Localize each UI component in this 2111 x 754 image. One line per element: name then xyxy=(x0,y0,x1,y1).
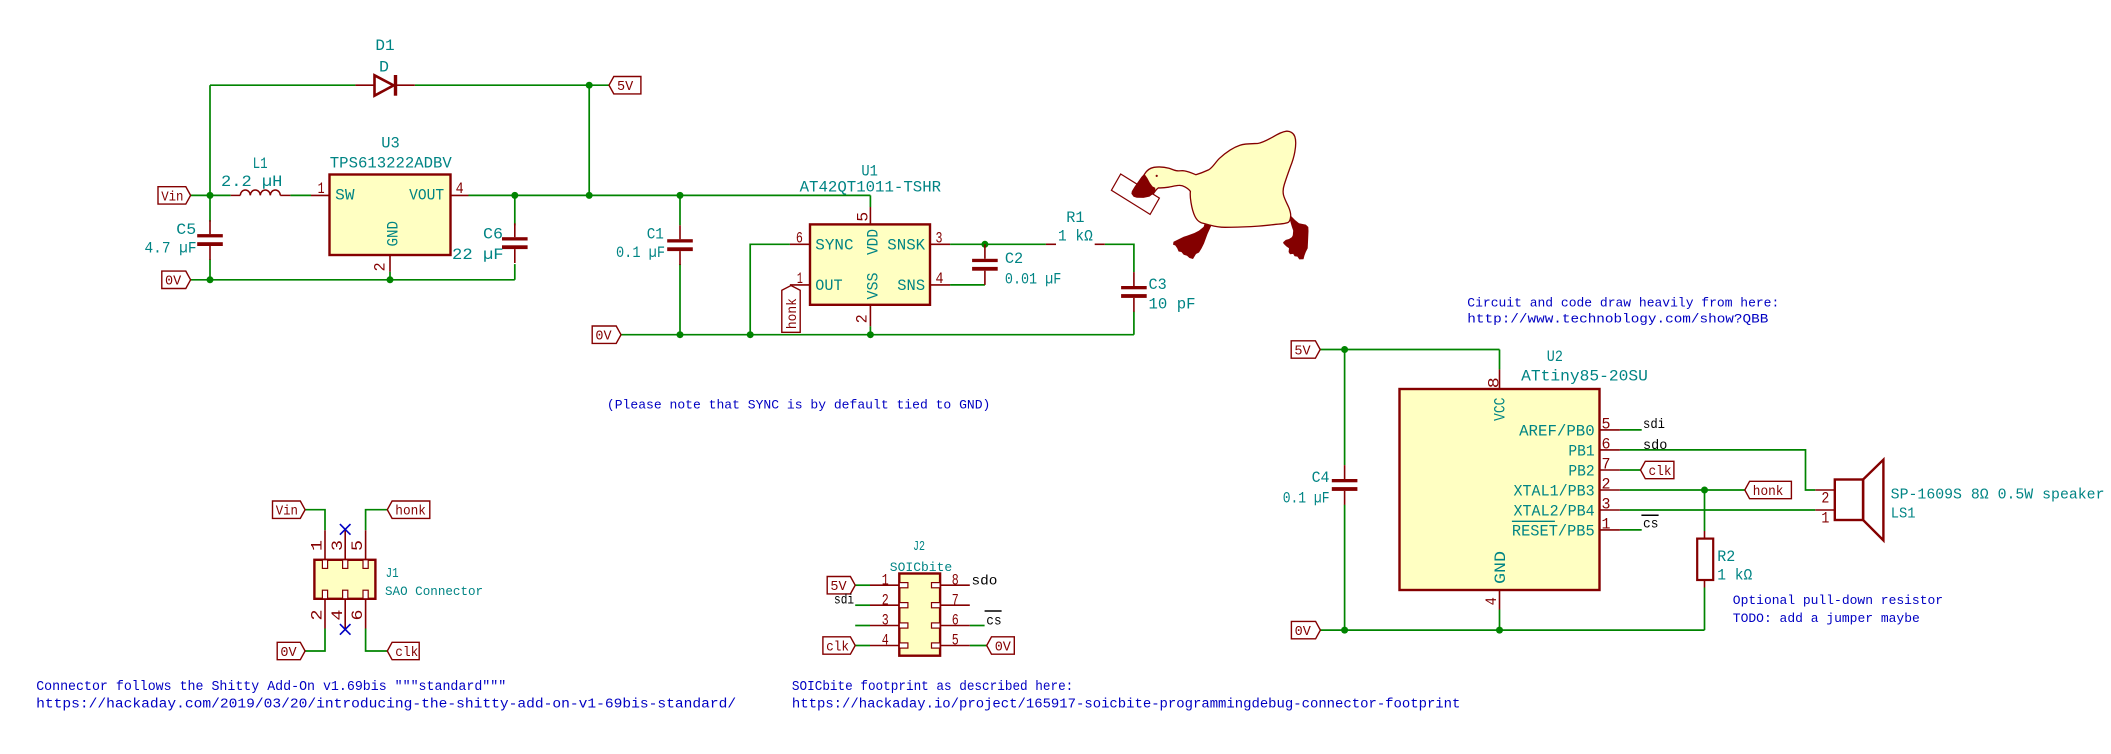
J2 pin 8 xyxy=(940,584,970,586)
wire VOUT rail to U1 VDD drop xyxy=(869,195,871,207)
J2 pin 4 xyxy=(870,645,899,647)
svg-text:0.1 µF: 0.1 µF xyxy=(616,244,665,262)
svg-text:Optional pull-down resistor: Optional pull-down resistor xyxy=(1733,593,1943,608)
net label honk at U1 OUT xyxy=(782,286,800,333)
resistor R1 (pin stubs) xyxy=(1046,243,1056,245)
svg-text:sdi: sdi xyxy=(1643,417,1665,433)
U1 pin 5 VDD xyxy=(869,207,871,224)
capacitor C4 xyxy=(1344,465,1346,479)
junction 0V at U2 GND xyxy=(1496,627,1503,634)
J2 pin 6 xyxy=(940,625,970,627)
wire SYNC feedback vertical xyxy=(750,244,790,334)
svg-text:6: 6 xyxy=(349,610,367,621)
svg-text:5: 5 xyxy=(952,632,959,650)
wire SNSK to R1 xyxy=(950,243,1046,245)
svg-text:1: 1 xyxy=(1602,516,1611,534)
svg-text:5V: 5V xyxy=(617,80,634,95)
capacitor C1 xyxy=(679,225,681,239)
svg-text:4: 4 xyxy=(456,180,464,198)
svg-text:http://www.technoblogy.com/sho: http://www.technoblogy.com/show?QBB xyxy=(1467,312,1768,327)
svg-text:SW: SW xyxy=(335,187,355,205)
svg-text:6: 6 xyxy=(1602,436,1611,454)
svg-text:1: 1 xyxy=(882,571,889,589)
wire 0V rail right section xyxy=(1320,629,1704,631)
J1 pin 3 xyxy=(344,530,346,560)
svg-text:R2: R2 xyxy=(1717,548,1735,566)
power label 5V xyxy=(609,77,641,94)
svg-text:L1: L1 xyxy=(253,155,268,173)
U1 pin 3 SNSK xyxy=(930,243,950,245)
svg-text:(Please note that SYNC is by d: (Please note that SYNC is by default tie… xyxy=(607,398,991,413)
svg-text:4: 4 xyxy=(882,632,889,650)
junction SNSK at C2 xyxy=(981,241,988,248)
svg-text:0V: 0V xyxy=(165,275,182,290)
wire clk to J2 pin 4 xyxy=(855,645,870,647)
IC U1 AT42QT1011-TSHR body xyxy=(810,224,930,304)
power label 0V xyxy=(162,271,191,288)
svg-text:C6: C6 xyxy=(483,226,503,244)
J1 pin 6 xyxy=(365,599,367,629)
capacitor C5 xyxy=(209,220,211,234)
wire C5 top xyxy=(209,195,211,221)
net label clk at J2 xyxy=(823,637,855,654)
svg-text:2: 2 xyxy=(372,262,390,271)
J1 pin 5 xyxy=(365,530,367,560)
svg-text:2: 2 xyxy=(309,610,327,621)
junction 5V node top xyxy=(586,82,593,89)
inductor L1 xyxy=(231,190,291,195)
U2 pin 6 PB1 xyxy=(1600,449,1620,451)
svg-text:R1: R1 xyxy=(1066,209,1084,227)
svg-text:D1: D1 xyxy=(375,37,394,55)
wire XTAL2/PB4 to speaker pin 1 xyxy=(1620,509,1815,511)
svg-text:clk: clk xyxy=(826,640,849,655)
wire C4 branch vertical top xyxy=(1344,350,1346,466)
U2 pin 8 VCC xyxy=(1499,369,1501,389)
net label clk at PB2 xyxy=(1641,461,1674,478)
wire Vin to J1 pin 1 xyxy=(305,510,325,531)
svg-text:4: 4 xyxy=(936,270,944,288)
junction 5V at C4 xyxy=(1341,346,1348,353)
wire top rail left of D1 xyxy=(210,84,355,86)
no-connect X on J1 pin 3 xyxy=(340,524,351,535)
wire C4 branch vertical bottom xyxy=(1344,505,1346,630)
svg-text:Circuit and code draw heavily: Circuit and code draw heavily from here: xyxy=(1467,295,1779,310)
wire C6 top xyxy=(514,195,516,225)
svg-text:3: 3 xyxy=(329,540,347,551)
svg-text:sdo: sdo xyxy=(972,573,998,589)
svg-text:cs: cs xyxy=(1643,517,1659,533)
svg-text:4: 4 xyxy=(1483,597,1501,605)
svg-text:LS1: LS1 xyxy=(1891,507,1916,523)
svg-text:GND: GND xyxy=(1492,551,1510,584)
junction 0V rail at C5 xyxy=(207,276,214,283)
wire vertical Vin up to diode row xyxy=(209,85,211,195)
svg-text:Vin: Vin xyxy=(276,505,298,520)
J2 pin 7 xyxy=(940,604,970,606)
svg-text:3: 3 xyxy=(936,229,943,247)
wire L1 to SW pin xyxy=(290,194,311,196)
wire C5 bottom to 0V rail xyxy=(209,259,211,280)
svg-text:honk: honk xyxy=(786,298,801,329)
svg-text:2: 2 xyxy=(1602,476,1611,494)
wire R2 bottom to rail xyxy=(1704,588,1706,631)
svg-text:U2: U2 xyxy=(1547,348,1563,366)
wire clk stub xyxy=(1620,469,1641,471)
wire clk to J1 pin 6 xyxy=(366,629,388,652)
wire XTAL1/PB3 to honk xyxy=(1620,489,1745,491)
wire PB1 sdo to speaker pin 2 xyxy=(1620,450,1815,490)
J2 pin 2 xyxy=(870,604,899,606)
svg-text:0V: 0V xyxy=(995,640,1012,655)
connector J1 SAO body xyxy=(314,560,375,599)
svg-text:1: 1 xyxy=(318,180,325,198)
capacitor C3 xyxy=(1133,272,1135,286)
capacitor C2 xyxy=(984,244,986,258)
wire cs stub xyxy=(1620,529,1642,531)
svg-text:PB1: PB1 xyxy=(1568,443,1594,461)
wire R1 to C3 corner xyxy=(1105,244,1134,272)
svg-text:Vin: Vin xyxy=(161,190,183,205)
power label Vin at J1 xyxy=(273,501,306,518)
junction rail at VSS xyxy=(867,331,874,338)
svg-text:OUT: OUT xyxy=(815,277,842,295)
wire 0V to J2 pin 5 xyxy=(970,645,987,647)
svg-text:0.01 µF: 0.01 µF xyxy=(1005,271,1061,289)
net label clk at J1 xyxy=(387,642,419,659)
power label 5V right xyxy=(1291,341,1320,358)
wire SNS to C2 bottom xyxy=(950,284,985,286)
svg-text:U3: U3 xyxy=(381,135,400,153)
svg-text:SNSK: SNSK xyxy=(887,237,925,255)
junction 0V at C4 xyxy=(1341,627,1348,634)
svg-text:XTAL2/PB4: XTAL2/PB4 xyxy=(1514,503,1595,521)
svg-text:2: 2 xyxy=(882,591,889,609)
svg-text:6: 6 xyxy=(952,612,959,630)
svg-text:7: 7 xyxy=(952,591,959,609)
U2 pin 3 XTAL2/PB4 xyxy=(1600,509,1620,511)
junction honk at R2 xyxy=(1701,487,1708,494)
J2 pin 5 xyxy=(940,645,970,647)
wire 5V to J2 pin 1 xyxy=(855,584,870,586)
svg-text:RESET/PB5: RESET/PB5 xyxy=(1512,523,1595,541)
U1 pin 2 VSS xyxy=(869,305,871,327)
svg-text:AREF/PB0: AREF/PB0 xyxy=(1519,423,1595,441)
J1 pin notches xyxy=(322,560,368,599)
svg-text:1: 1 xyxy=(309,540,327,551)
J1 pin 1 xyxy=(324,530,326,560)
wire sdi stub xyxy=(1620,429,1642,431)
power label 0V mid xyxy=(592,326,621,343)
junction VOUT at 5V drop xyxy=(586,192,593,199)
svg-text:1 kΩ: 1 kΩ xyxy=(1058,228,1093,246)
svg-text:SOICbite footprint as describe: SOICbite footprint as described here: xyxy=(792,679,1073,695)
goose artwork: beak xyxy=(1131,174,1155,198)
wire 5V junction down to VOUT rail xyxy=(588,85,590,195)
svg-text:6: 6 xyxy=(796,229,803,247)
net label honk at PB3 xyxy=(1745,481,1792,498)
U1 pin 6 SYNC xyxy=(790,243,810,245)
svg-text:0V: 0V xyxy=(595,330,612,345)
svg-text:1: 1 xyxy=(797,270,803,288)
wire C1 top xyxy=(679,195,681,225)
IC U2 ATtiny85-20SU body xyxy=(1400,389,1600,590)
net label honk at J1 xyxy=(387,501,430,518)
junction rail at SYNC xyxy=(747,331,754,338)
wire cs stub J2 xyxy=(970,625,985,627)
svg-text:C4: C4 xyxy=(1312,469,1330,487)
svg-text:7: 7 xyxy=(1602,456,1611,474)
no-connect X on J1 pin 4 xyxy=(340,624,351,635)
svg-text:C5: C5 xyxy=(176,221,196,239)
svg-text:SOICbite: SOICbite xyxy=(890,560,952,575)
svg-text:ATtiny85-20SU: ATtiny85-20SU xyxy=(1521,368,1648,386)
capacitor C6 xyxy=(514,223,516,237)
wire honk to J1 pin 5 xyxy=(366,510,388,531)
svg-text:1 kΩ: 1 kΩ xyxy=(1717,567,1752,585)
svg-text:GND: GND xyxy=(385,221,403,247)
wire VSS to rail xyxy=(869,326,871,334)
wire mid 0V rail xyxy=(621,334,1134,336)
wire C1 bottom to mid 0V rail xyxy=(679,264,681,335)
goose artwork: right foot xyxy=(1283,216,1308,260)
U2 pin 5 AREF/PB0 xyxy=(1600,429,1620,431)
svg-text:clk: clk xyxy=(395,646,418,661)
svg-text:1: 1 xyxy=(1821,509,1829,527)
svg-text:8: 8 xyxy=(952,571,959,589)
wire top rail right of D1 to 5V xyxy=(415,84,609,86)
U1 pin 1 OUT xyxy=(790,284,810,286)
svg-text:cs: cs xyxy=(986,614,1001,630)
svg-text:3: 3 xyxy=(1602,496,1611,514)
svg-text:VSS: VSS xyxy=(865,273,883,300)
op-amp U3 TPS613222ADBV body xyxy=(330,175,451,256)
svg-text:XTAL1/PB3: XTAL1/PB3 xyxy=(1514,483,1595,501)
U3 pin 1 SW xyxy=(311,194,330,196)
speaker LS1 xyxy=(1815,460,1883,541)
svg-text:VOUT: VOUT xyxy=(409,187,444,205)
U2 pin 4 GND xyxy=(1499,590,1501,610)
svg-text:5: 5 xyxy=(1602,416,1611,434)
svg-text:honk: honk xyxy=(395,505,426,520)
svg-text:TPS613222ADBV: TPS613222ADBV xyxy=(330,155,452,173)
svg-text:https://hackaday.io/project/16: https://hackaday.io/project/165917-soicb… xyxy=(792,696,1461,712)
U2 pin 2 XTAL1/PB3 xyxy=(1600,489,1620,491)
svg-text:honk: honk xyxy=(1753,485,1784,500)
power label 0V right xyxy=(1291,621,1320,638)
svg-text:2: 2 xyxy=(1821,489,1829,507)
U3 pin 4 VOUT xyxy=(451,194,469,196)
svg-text:AT42QT1011-TSHR: AT42QT1011-TSHR xyxy=(800,179,942,197)
U3 pin 2 GND xyxy=(389,255,391,272)
svg-text:2.2 µH: 2.2 µH xyxy=(221,173,282,191)
J1 pin 2 xyxy=(324,599,326,629)
goose artwork: eye xyxy=(1156,175,1158,177)
wire C3 bottom to rail xyxy=(1133,312,1135,335)
wire Vin to junction and L1 xyxy=(191,194,231,196)
svg-text:8: 8 xyxy=(1485,377,1503,388)
resistor R2 xyxy=(1704,531,1706,539)
svg-text:PB2: PB2 xyxy=(1568,463,1594,481)
svg-text:SNS: SNS xyxy=(897,277,925,295)
U2 pin 7 PB2 xyxy=(1600,469,1620,471)
svg-text:SAO Connector: SAO Connector xyxy=(385,584,483,599)
junction rail at C1 xyxy=(677,331,684,338)
junction 0V rail at U3 GND xyxy=(387,276,394,283)
wire 0V rail left section xyxy=(191,279,515,281)
wire pin3 stub J2 xyxy=(855,625,870,627)
svg-text:3: 3 xyxy=(882,612,889,630)
svg-text:C1: C1 xyxy=(647,225,664,243)
goose artwork: left foot xyxy=(1173,224,1212,259)
svg-text:sdi: sdi xyxy=(834,593,854,609)
goose artwork: paper rectangle xyxy=(1111,174,1159,214)
wire C6 bottom xyxy=(514,264,516,280)
wire U3 GND pin to rail xyxy=(389,272,391,280)
J1 pin 4 xyxy=(344,599,346,629)
wire R2 top xyxy=(1704,490,1706,531)
svg-text:0V: 0V xyxy=(1295,625,1312,640)
diode D1 xyxy=(355,75,414,96)
power label 0V at J2 xyxy=(987,637,1015,654)
junction Vin node xyxy=(207,192,214,199)
svg-text:5: 5 xyxy=(855,212,873,222)
svg-text:D: D xyxy=(379,59,389,77)
svg-text:SYNC: SYNC xyxy=(815,237,853,255)
svg-text:4: 4 xyxy=(329,610,347,621)
svg-text:22 µF: 22 µF xyxy=(452,246,504,264)
wire 0V to J1 pin 2 xyxy=(305,629,325,652)
J2 pin 1 xyxy=(870,584,899,586)
J2 pin 3 xyxy=(870,625,899,627)
wire sdi stub J2 xyxy=(855,604,870,606)
svg-text:J1: J1 xyxy=(386,566,399,582)
svg-text:VDD: VDD xyxy=(865,229,883,255)
U1 pin 4 SNS xyxy=(930,284,950,286)
svg-text:4.7 µF: 4.7 µF xyxy=(145,240,197,258)
svg-text:https://hackaday.com/2019/03/2: https://hackaday.com/2019/03/20/introduc… xyxy=(36,696,736,712)
svg-text:5: 5 xyxy=(349,540,367,551)
J2 pin notches xyxy=(899,583,940,649)
svg-text:J2: J2 xyxy=(913,539,925,555)
svg-text:10 pF: 10 pF xyxy=(1149,296,1196,314)
svg-text:2: 2 xyxy=(853,314,871,323)
wire VCC drop xyxy=(1499,350,1501,370)
junction VOUT at C1 xyxy=(677,192,684,199)
svg-text:TODO: add a jumper maybe: TODO: add a jumper maybe xyxy=(1733,611,1920,626)
svg-text:VCC: VCC xyxy=(1491,398,1509,422)
junction VOUT at C6 xyxy=(511,192,518,199)
svg-text:SP-1609S 8Ω 0.5W speaker: SP-1609S 8Ω 0.5W speaker xyxy=(1891,488,2105,504)
power label 5V at J2 xyxy=(827,577,855,594)
connector J2 SOICbite body xyxy=(899,574,940,656)
wire U2 GND pin to rail xyxy=(1499,610,1501,631)
wire VOUT rail xyxy=(469,194,871,196)
svg-text:sdo: sdo xyxy=(1643,438,1667,454)
U2 pin 1 RESET/PB5 xyxy=(1600,529,1620,531)
goose artwork: body xyxy=(1144,131,1295,227)
svg-text:C2: C2 xyxy=(1005,250,1023,268)
svg-text:Connector follows the Shitty A: Connector follows the Shitty Add-On v1.6… xyxy=(36,679,506,695)
wire 5V to VCC corner xyxy=(1320,349,1499,351)
power label Vin xyxy=(158,187,191,204)
svg-text:0.1 µF: 0.1 µF xyxy=(1283,489,1330,507)
power label 0V at J1 xyxy=(277,642,305,659)
svg-text:0V: 0V xyxy=(280,646,297,661)
svg-text:5V: 5V xyxy=(1294,344,1311,359)
svg-text:C3: C3 xyxy=(1149,276,1167,294)
svg-text:clk: clk xyxy=(1649,465,1672,480)
